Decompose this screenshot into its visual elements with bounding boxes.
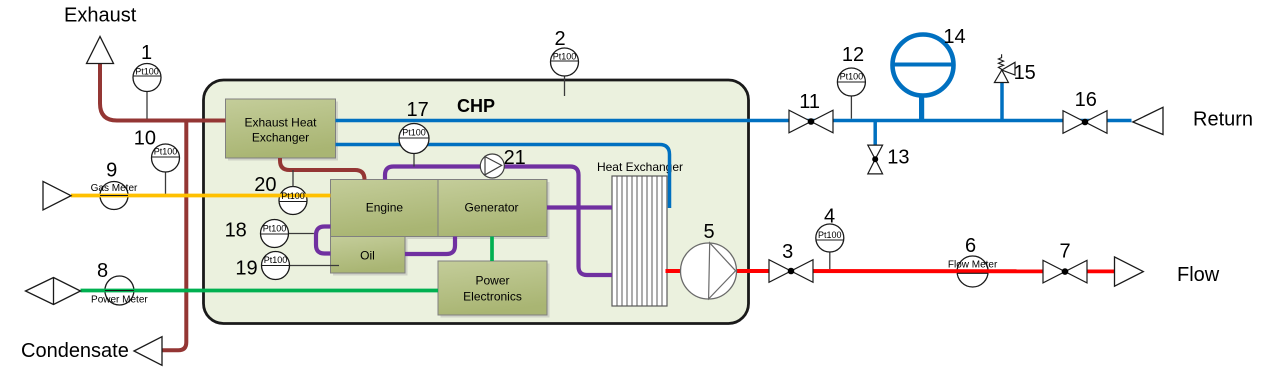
svg-text:Pt100: Pt100 [553, 52, 577, 62]
svg-text:CHP: CHP [457, 96, 495, 116]
svg-text:16: 16 [1075, 89, 1097, 111]
svg-text:20: 20 [254, 174, 276, 196]
sensor 20 stem chord text [254, 170, 307, 202]
svg-text:Gas Meter: Gas Meter [91, 183, 138, 194]
svg-text:2: 2 [554, 28, 565, 50]
svg-text:Pt100: Pt100 [281, 191, 305, 201]
valve 7 [1043, 241, 1087, 283]
wire yellow gas line [71, 194, 331, 198]
svg-text:15: 15 [1014, 62, 1036, 84]
svg-text:Exchanger: Exchanger [252, 131, 309, 145]
flow meter 6 circle [957, 256, 988, 287]
wire red flow line pump to arrow [736, 269, 1115, 273]
wire blue stem vessel 14 [919, 94, 924, 121]
power meter 8 circle [105, 276, 134, 305]
sensor 10 Pt100 [134, 128, 180, 194]
svg-text:6: 6 [965, 235, 976, 257]
power meter 8 chord and label [91, 260, 148, 306]
valve 11 [789, 91, 833, 133]
wire condensate drop [162, 121, 186, 351]
gas source flag [43, 181, 71, 210]
svg-text:Flow: Flow [1177, 264, 1220, 286]
safety valve 15 [994, 54, 1035, 84]
heat exchanger coil [597, 160, 683, 306]
sensor 1 Pt100 [133, 42, 161, 119]
exhaust heat exchanger box [226, 99, 339, 161]
wire purple oil loop left [316, 227, 331, 254]
sensor 12 Pt100 [837, 44, 865, 119]
svg-text:10: 10 [134, 128, 156, 150]
generator box [438, 180, 550, 240]
condensate flag [134, 337, 162, 366]
sensor 4 Pt100 [816, 206, 844, 270]
svg-text:21: 21 [504, 147, 526, 169]
wire blue return main line [336, 119, 1132, 123]
svg-text:1: 1 [141, 42, 152, 64]
power source flag [26, 278, 81, 305]
gas meter 9 circle [100, 182, 128, 210]
wire purple engine to heat exchanger [385, 167, 612, 276]
wire red flow line HX to pump [666, 269, 683, 273]
pump 5 [681, 221, 737, 299]
power electronics box [438, 261, 550, 318]
svg-text:12: 12 [842, 44, 864, 66]
svg-text:18: 18 [225, 220, 247, 242]
svg-text:Pt100: Pt100 [263, 224, 287, 234]
svg-text:Oil: Oil [360, 249, 375, 263]
svg-text:Pt100: Pt100 [402, 128, 426, 138]
engine box [331, 180, 441, 240]
svg-text:Pt100: Pt100 [154, 147, 178, 157]
wire EHE to engine exhaust [280, 158, 365, 180]
svg-text:Power Meter: Power Meter [91, 295, 148, 306]
oil box [331, 237, 408, 276]
svg-text:3: 3 [782, 241, 793, 263]
svg-text:17: 17 [406, 99, 428, 121]
valve 16 [1063, 89, 1107, 133]
svg-text:Exhaust Heat: Exhaust Heat [244, 116, 317, 130]
wire exhaust pipe from triangle to EHE [100, 64, 226, 121]
svg-text:14: 14 [943, 26, 965, 48]
svg-text:Engine: Engine [366, 201, 404, 215]
svg-text:11: 11 [799, 91, 820, 113]
svg-text:Pt100: Pt100 [840, 72, 864, 82]
svg-text:Electronics: Electronics [463, 290, 522, 304]
pump 21 [480, 147, 526, 178]
svg-text:9: 9 [106, 160, 117, 182]
wire purple oil to generator [405, 237, 455, 255]
exhaust flag [87, 37, 114, 64]
flow meter 6 chord and label [948, 235, 998, 273]
wire green power line [81, 289, 439, 293]
svg-text:Flow Meter: Flow Meter [948, 259, 998, 270]
svg-text:Return: Return [1193, 109, 1253, 131]
svg-text:Pt100: Pt100 [264, 255, 288, 265]
gas meter 9 chord and label [91, 160, 138, 196]
svg-text:8: 8 [97, 260, 108, 282]
svg-text:4: 4 [824, 206, 835, 228]
wire blue branch to valve 13 [873, 121, 877, 145]
valve 13 [868, 145, 910, 174]
wire purple generator to heat exchanger [547, 205, 612, 209]
wire blue stem safety valve 15 [1000, 83, 1004, 121]
svg-text:Condensate: Condensate [21, 340, 129, 362]
expansion vessel 14 [893, 26, 966, 96]
flow flag [1115, 257, 1144, 286]
svg-text:7: 7 [1059, 241, 1070, 263]
svg-text:Exhaust: Exhaust [64, 5, 137, 27]
sensor 18 Pt100 [225, 220, 314, 248]
sensor 20 circle [279, 187, 307, 215]
svg-text:Generator: Generator [464, 201, 518, 215]
sensor 17 Pt100 [399, 99, 429, 167]
sensor 2 Pt100 [551, 28, 579, 96]
wire blue EHE to heat exchanger [336, 145, 670, 209]
valve 3 [769, 241, 813, 282]
svg-text:Pt100: Pt100 [818, 230, 842, 240]
svg-text:Power: Power [475, 274, 509, 288]
sensor 19 Pt100 [235, 252, 339, 280]
CHP enclosure [204, 80, 749, 324]
svg-text:13: 13 [887, 147, 909, 169]
svg-text:19: 19 [235, 258, 257, 280]
return flag [1133, 107, 1163, 134]
svg-text:Pt100: Pt100 [135, 67, 159, 77]
svg-text:5: 5 [703, 221, 714, 243]
wire green generator to power electronics [490, 237, 494, 262]
